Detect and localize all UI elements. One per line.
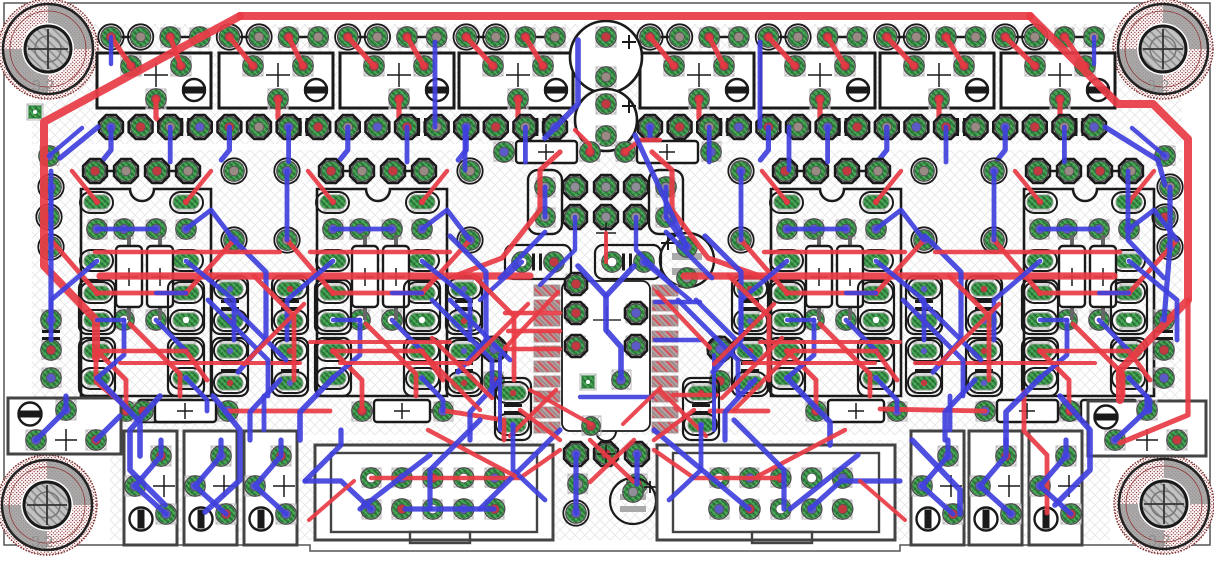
wire blue [286,127,291,162]
wire red [876,240,924,293]
wire red [657,292,710,348]
wire blue [156,291,186,295]
wire blue [156,320,186,351]
trimmer RV5 [969,431,1022,545]
wire blue [422,210,470,240]
capacitor C52 [505,245,571,279]
wire blue [1040,440,1071,514]
wire red [876,171,901,202]
wire blue top stubs [642,127,650,160]
wire red [764,250,905,254]
wire red [186,171,211,202]
wire red [51,240,97,293]
wire blue top stubs [458,127,466,160]
wire red [100,272,530,279]
resistor R61 [615,141,721,163]
wire red [120,361,300,365]
trimmer RV3 [244,431,297,545]
wire red [758,430,845,476]
wire blue [545,40,578,138]
wire red [96,358,128,408]
wire red [935,250,1120,254]
wire blue [922,440,953,514]
resistor R13 [352,400,453,422]
wire red [333,291,422,296]
wire blue top stubs [340,127,348,160]
wire blue [712,355,716,430]
wire blue [1055,396,1090,505]
wire blue [644,262,690,300]
wire red [714,304,774,364]
wire blue [1164,247,1170,320]
wire red [310,250,450,254]
capacitor boxes ch2 [769,280,894,396]
wire red [422,240,470,293]
wire blue [696,300,756,360]
wire blue [944,127,949,162]
wire blue [1099,291,1129,295]
capacitor C54 (electrolytic) [660,233,714,288]
resistor network R20 pads [770,192,893,389]
trimmer RV2 [184,431,237,545]
wire red [520,410,560,440]
label hole size [31,534,53,551]
wire red [244,304,304,364]
wire red [505,311,560,315]
wire red [455,152,560,276]
wire blue [96,416,120,440]
wire blue [49,128,82,156]
wire red [97,351,126,411]
pad mid ch2 [804,310,856,330]
resistor R70 [133,400,238,422]
wire blue [186,378,207,411]
pad row top left [98,24,565,49]
wire blue [305,481,371,509]
wire blue [1105,127,1165,185]
capacitor pair C34 [906,276,942,396]
wire red [860,481,905,520]
wire red [530,390,591,424]
capacitor pair C31 [272,276,308,396]
wire red [876,351,897,380]
wire blue top stubs [221,127,229,160]
pad row2 ch0 [87,219,196,239]
wire blue [523,127,528,162]
capacitor C3 (top box) [340,53,454,109]
wire red [308,171,333,202]
resistor R71 [975,400,1080,422]
wire blue [48,247,53,320]
pad row2 ch3 [1030,219,1139,239]
wire red [939,304,999,364]
wire blue [655,300,700,304]
wire red [760,340,900,344]
wire red [186,240,234,293]
wire blue [1129,261,1177,340]
pad mid ch3 [1057,310,1109,330]
wire red [575,130,590,152]
capacitor pair C30 [212,276,248,396]
wire blue [135,440,166,514]
capacitor C55 [610,478,656,524]
wire blue [480,430,560,509]
wire blue [130,396,165,505]
trimmer RV6 [1029,431,1082,545]
wire red [787,349,876,353]
wire red [72,171,97,202]
via V2 [580,374,596,390]
wire red [310,340,450,344]
wire blue [787,318,814,322]
wire red [1129,240,1177,293]
wire blue [666,217,687,247]
wire blue [664,187,669,217]
wire blue [846,320,876,351]
wire blue [876,261,924,340]
wire blue [513,425,545,500]
wire red [722,338,782,398]
op-amp U2 outline [81,189,211,396]
wire red [652,152,760,276]
wire blue [1167,187,1172,247]
wire red [1129,171,1154,202]
pad row2 ch1 [323,219,432,239]
wire blue [60,127,98,158]
mounting hole H4 [1114,454,1214,554]
op-amp U5 outline [1024,189,1154,396]
wire red [1120,300,1188,443]
wire blue [392,320,422,351]
via column ch3 [981,158,1182,259]
wire red [505,292,558,348]
wire blue [578,266,621,378]
wire blue [810,481,900,509]
wire blue [669,425,701,500]
wire blue [666,232,712,278]
wire blue [787,378,830,445]
wire red [684,272,1114,279]
resistor R23 [806,400,907,422]
wire blue [543,187,548,217]
wire blue [333,320,360,378]
wire red [333,351,362,411]
wire red [623,388,660,424]
pad row mid left [99,115,567,139]
pad group U1 inner [565,273,647,436]
wire red [130,324,180,396]
wire red [1040,349,1129,353]
wire blue [285,171,290,240]
wire red [186,351,207,380]
via column ch1 [274,158,482,252]
wire blue [1132,128,1165,156]
resistor R60 [494,141,600,163]
capacitor C2 (top box) [219,53,333,109]
wire red [428,430,515,476]
wire blue top stubs [103,127,111,160]
capacitor boxes ch0 [79,280,204,396]
wire blue [1115,396,1147,440]
wire blue [195,440,226,514]
wire red [446,411,504,440]
wire red [505,347,560,351]
capacitor C20 [42,332,60,339]
wire blue [500,232,545,278]
wire blue [97,320,124,378]
wire blue [787,227,846,232]
wire blue [450,300,510,360]
wire blue [1129,210,1177,240]
via column ch0 [38,158,246,259]
wire blue [262,396,267,430]
capacitor boxes ch1 [315,280,440,396]
wire blue [48,187,53,247]
label hole size [1147,78,1169,95]
wire red [880,409,985,411]
svg-text:3,2: 3,2 [1147,78,1169,95]
wire red top stubs [768,37,845,127]
wire red [432,338,492,398]
wire red top stubs [650,37,724,127]
capacitor C8 (top box) [1001,53,1115,109]
wire blue [422,378,443,411]
capacitor pair C32 [446,276,482,396]
wire blue [109,37,113,64]
wire blue [876,378,897,411]
wire red [741,240,787,293]
wire red [340,361,470,365]
wire blue [678,300,738,396]
resistor R31 R32 [1059,235,1116,320]
capacitor C4 (top box) [459,53,573,109]
connector header JP9 [528,170,683,243]
wire red [366,324,416,396]
wire red [729,276,769,380]
wire blue [333,318,360,322]
wire blue [725,380,755,440]
wire blue [470,380,500,440]
wire red top stubs [1005,37,1085,127]
capacitor C1 (top box) [97,53,211,109]
wire red [1015,171,1040,202]
connector header JP4 [1026,159,1143,183]
wire blue top stubs [760,127,768,160]
capacitor boxes ch3 [1022,280,1147,396]
connector header JP3 [773,159,890,183]
wire blue [903,300,963,396]
wire blue [498,355,502,430]
via D1 [481,336,506,391]
connector J2 pads [709,468,853,519]
wire blue [992,171,997,240]
svg-text:3,2: 3,2 [31,534,53,551]
wire red [508,329,560,333]
capacitor C53 [595,245,661,279]
wire red [422,171,447,202]
label hole size [1148,533,1170,550]
wire blue [948,396,953,430]
wire blue [333,227,392,232]
wire blue [876,210,924,240]
resistor network R30 pads [1024,192,1145,389]
wire red [654,450,780,478]
wire red top stubs [466,37,543,127]
wire blue [300,378,333,440]
wire blue [51,261,97,340]
pad row2 ch2 [777,219,886,239]
wire red [787,291,876,296]
wire red [474,276,514,380]
wire blue [741,261,787,340]
wire blue [790,455,858,509]
svg-text:3,2: 3,2 [1148,533,1170,550]
IC U1 (SMD) [534,281,678,441]
wire blue [480,262,522,300]
wire red [762,171,787,202]
wire blue [825,127,830,162]
pad mid ch0 [114,310,166,330]
wire blue [787,320,814,378]
capacitor C51 (electrolytic) [575,89,637,151]
wire blue [1040,227,1099,232]
trimmer RV1 [124,431,177,545]
wire red [95,250,280,254]
wire blue [186,261,234,340]
wire blue [1040,318,1067,322]
wire blue [1129,378,1150,411]
wire red top stubs [348,37,424,127]
mounting hole H1 [0,0,98,99]
label hole size [32,78,54,95]
wire blue [734,420,784,509]
wire blue [1040,320,1067,378]
wire bus top bars 0 [111,36,555,39]
wire red [371,450,560,478]
wire blue [846,291,876,295]
wire blue [226,300,286,360]
resistor R1 R2 [116,235,173,320]
wire red [1040,291,1129,296]
wire blue [230,236,266,372]
pad left edge [36,146,61,388]
resistor network R10 pads [316,192,439,389]
wire blue [1128,171,1164,278]
wire red [228,409,330,414]
wire red [787,351,816,411]
wire blue [205,396,240,512]
wire blue [654,430,749,509]
capacitor C6 (top box) [761,53,875,109]
wire blue [422,261,470,340]
connector header JP2 [319,159,436,183]
pad right edge [1152,146,1177,388]
wire red [333,349,422,353]
wire blue [97,318,124,322]
op-amp U4 outline [771,189,901,396]
wire red [254,276,294,380]
wire blue [925,236,961,372]
wire blue [606,266,634,296]
wire blue [540,217,575,285]
wire blue [1062,127,1067,162]
wire blue [392,291,422,295]
wire blue [450,236,486,372]
wire blue [405,127,410,162]
wire red [420,350,480,410]
wire blue [635,135,687,247]
wire blue [250,380,280,440]
wire blue [580,395,652,399]
capacitor C50 (electrolytic) [570,21,642,93]
wire red [287,240,333,293]
wire blue [97,227,156,232]
wire blue [787,127,792,170]
wire blue [305,430,341,481]
wire red [1024,392,1047,513]
capacitor C21 [1155,332,1173,339]
wire red [468,304,528,364]
capacitor C41 [683,378,719,440]
wire red [590,440,634,482]
wire blue [208,300,268,396]
wire red [660,390,706,436]
capacitor pair C33 [966,276,1002,396]
wire blue [994,261,1040,340]
resistor network R0 pads [80,192,203,389]
wire blue [463,127,468,170]
wire blue [186,210,234,240]
wire blue [255,440,286,514]
wire red [44,16,240,358]
wire red [1040,351,1069,411]
wire red [97,291,186,296]
wire blue [1092,37,1096,64]
wire red [1073,324,1123,396]
wire red [734,350,794,410]
wire red [949,276,989,380]
wire blue [433,42,438,127]
wire red [744,361,875,365]
wire blue [758,42,763,127]
wire blue [1099,320,1129,351]
wire blue [97,378,140,456]
wire red top stubs [887,37,964,127]
wire blue [430,420,480,509]
svg-text:3,2: 3,2 [32,78,54,95]
wire red [820,324,870,396]
terminal X1 [8,398,121,454]
capacitor C40 [495,378,531,440]
wire blue [287,261,333,340]
wire red [1129,351,1150,380]
wire blue [921,300,981,360]
wire blue [707,127,712,162]
wire blue [573,454,578,513]
wire blue [945,380,975,440]
mounting hole H2 [1113,0,1213,99]
wire red [654,410,694,440]
resistor R11 R12 [352,235,409,320]
wire bus top bars 1 [650,36,1094,39]
wire red [422,351,443,380]
trimmer RV4 [911,431,964,545]
wire blue [1006,378,1040,445]
wire blue [739,171,744,240]
op-amp U3 outline [317,189,447,396]
wire red [240,12,1030,20]
pad row top right [637,24,1104,49]
